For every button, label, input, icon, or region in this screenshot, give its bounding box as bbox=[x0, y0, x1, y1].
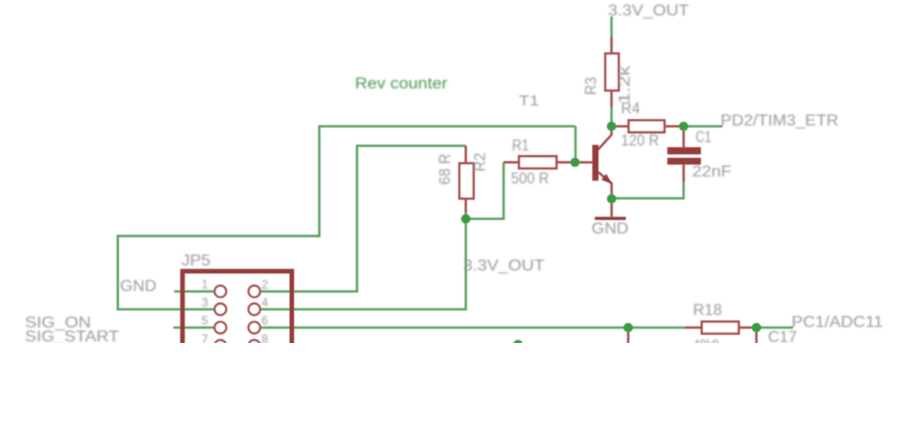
svg-text:3: 3 bbox=[201, 295, 208, 309]
svg-text:68 R: 68 R bbox=[437, 154, 454, 185]
svg-text:GND: GND bbox=[592, 221, 629, 238]
svg-text:22nF: 22nF bbox=[692, 164, 732, 181]
svg-text:1.2k: 1.2k bbox=[616, 65, 633, 103]
svg-text:Rev counter: Rev counter bbox=[355, 76, 448, 93]
svg-text:R2: R2 bbox=[472, 153, 489, 172]
svg-text:R1: R1 bbox=[512, 138, 529, 155]
svg-text:3.3V_OUT: 3.3V_OUT bbox=[463, 258, 545, 275]
svg-text:6: 6 bbox=[262, 314, 269, 328]
svg-text:3.3V_OUT: 3.3V_OUT bbox=[608, 3, 690, 20]
svg-text:PD2/TIM3_ETR: PD2/TIM3_ETR bbox=[721, 113, 839, 130]
svg-text:4: 4 bbox=[262, 295, 269, 309]
svg-text:2: 2 bbox=[262, 277, 269, 291]
svg-text:1: 1 bbox=[201, 277, 208, 291]
svg-text:GND: GND bbox=[120, 278, 157, 295]
svg-text:C1: C1 bbox=[696, 129, 712, 146]
svg-text:5: 5 bbox=[201, 314, 208, 328]
svg-text:SIG_START: SIG_START bbox=[25, 329, 120, 346]
svg-text:R18: R18 bbox=[693, 302, 722, 319]
svg-text:500 R: 500 R bbox=[511, 171, 549, 188]
svg-text:R3: R3 bbox=[583, 77, 600, 95]
svg-text:T1: T1 bbox=[519, 94, 539, 110]
svg-text:120 R: 120 R bbox=[621, 133, 659, 150]
svg-text:JP5: JP5 bbox=[182, 253, 211, 270]
svg-text:PC1/ADC11: PC1/ADC11 bbox=[792, 314, 884, 331]
